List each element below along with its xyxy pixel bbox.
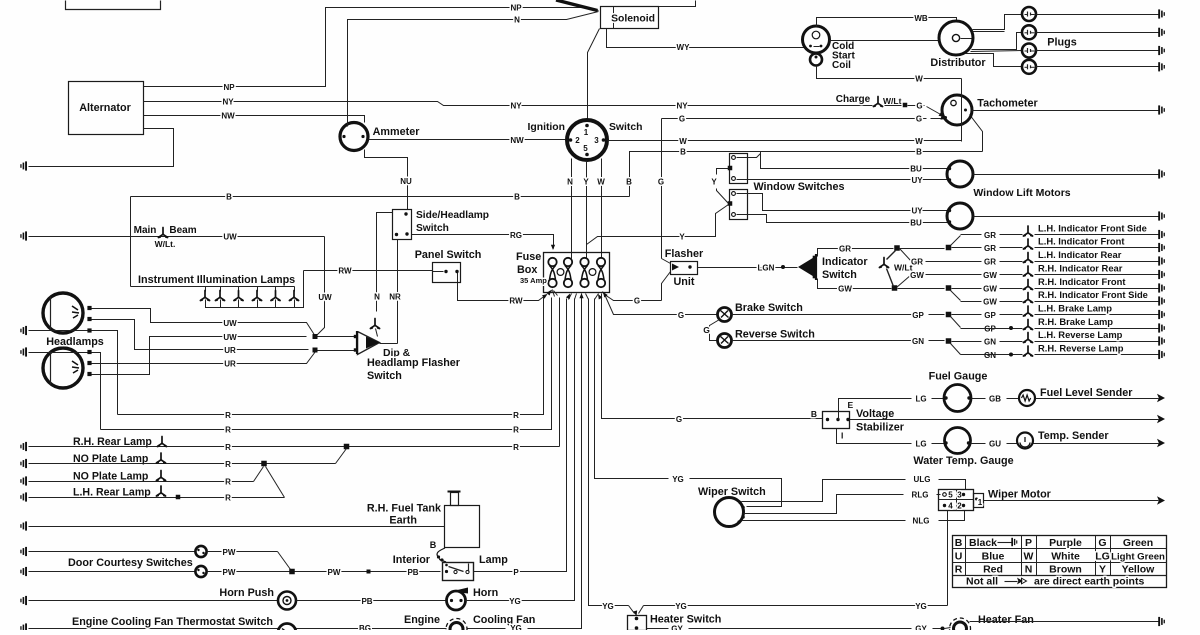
svg-text:Instrument Illumination Lamps: Instrument Illumination Lamps: [138, 274, 295, 286]
wire G into tachometer: [927, 107, 943, 116]
svg-text:Fuel Level Sender: Fuel Level Sender: [1040, 387, 1133, 399]
wire coil to distributor LT: [830, 40, 941, 42]
svg-text:NY: NY: [510, 102, 522, 111]
heater fan earth wire: [970, 621, 1159, 623]
svg-text:R: R: [225, 494, 231, 503]
svg-text:3: 3: [594, 136, 599, 145]
wire GB to fuel level sender: [972, 398, 986, 400]
wire N solenoid to ammeter: [348, 12, 599, 123]
svg-text:RG: RG: [510, 231, 522, 240]
svg-text:Red: Red: [983, 564, 1003, 576]
svg-text:Y: Y: [583, 178, 589, 187]
wire G fuse box to brake switch: [606, 297, 718, 315]
wire WB coil to distributor: [817, 18, 957, 27]
wire Y feed from fuse box: [587, 205, 729, 245]
svg-text:L.H. Indicator Rear: L.H. Indicator Rear: [1038, 249, 1122, 260]
battery thick feed wire: [556, 0, 598, 11]
svg-text:2: 2: [575, 136, 580, 145]
headlamp lower: [43, 348, 83, 388]
svg-text:Fuse: Fuse: [516, 251, 541, 263]
door courtesy switch 1: [29, 551, 196, 553]
svg-text:Horn: Horn: [473, 587, 498, 599]
wire G vertical to flasher: [661, 119, 663, 259]
wire BU to window motor 2: [737, 215, 949, 223]
svg-text:PW: PW: [328, 568, 341, 577]
svg-text:GW: GW: [983, 298, 997, 307]
wire RW panel switch to fuse box: [458, 273, 547, 301]
indicator switch: [798, 256, 816, 278]
wire UW headlamp1 to dip switch: [92, 309, 316, 337]
svg-text:Beam: Beam: [169, 225, 196, 236]
svg-text:Temp. Sender: Temp. Sender: [1038, 430, 1109, 442]
svg-text:B: B: [226, 193, 232, 202]
wire N side switch to main beam lamp: [377, 213, 393, 312]
door courtesy switch 2: [29, 571, 196, 573]
svg-text:Yellow: Yellow: [1122, 564, 1156, 576]
svg-text:P: P: [1025, 537, 1032, 549]
water temp gauge: [945, 428, 971, 454]
wire G fuse box to voltage stabilizer: [602, 297, 823, 419]
solenoid U2: [601, 7, 659, 29]
wire P interior lamp to fuse box: [474, 299, 567, 572]
wire RLG wiper switch to motor: [744, 495, 904, 514]
wire G fuse box to flasher: [605, 295, 662, 301]
svg-text:Engine: Engine: [404, 614, 440, 626]
plug earth wire: [1036, 32, 1159, 34]
svg-text:LG: LG: [915, 395, 926, 404]
wire W ignition to tach area: [608, 140, 962, 142]
svg-text:4: 4: [948, 502, 953, 511]
svg-text:Brake Switch: Brake Switch: [735, 302, 803, 314]
svg-text:Box: Box: [517, 264, 537, 276]
svg-text:Water Temp. Gauge: Water Temp. Gauge: [913, 455, 1013, 467]
svg-text:B: B: [955, 537, 963, 549]
svg-text:Coil: Coil: [832, 60, 851, 71]
svg-text:Voltage: Voltage: [856, 408, 894, 420]
main beam indicator bulb: [370, 319, 379, 329]
svg-text:NLG: NLG: [913, 517, 930, 526]
wire PB horn push to horn: [297, 600, 447, 602]
wire NW ammeter to ignition switch: [369, 139, 568, 141]
wire UR headlamp1: [92, 320, 309, 350]
svg-text:Door Courtesy Switches: Door Courtesy Switches: [68, 557, 193, 569]
svg-text:YG: YG: [602, 602, 614, 611]
wire UY to window motor 2: [737, 194, 949, 211]
svg-text:Headlamp Flasher: Headlamp Flasher: [367, 357, 461, 369]
svg-text:Green: Green: [1123, 537, 1153, 549]
svg-text:BU: BU: [910, 165, 922, 174]
svg-text:Indicator: Indicator: [822, 256, 868, 268]
svg-text:Wiper Switch: Wiper Switch: [698, 486, 766, 498]
svg-text:Stabilizer: Stabilizer: [856, 422, 905, 434]
svg-text:UW: UW: [223, 319, 237, 328]
svg-text:W: W: [915, 75, 923, 84]
engine cooling fan thermostat switch: [29, 628, 278, 630]
plug earth wire: [1036, 14, 1159, 16]
svg-text:Y: Y: [711, 178, 717, 187]
voltage stabilizer: [823, 412, 850, 429]
alternator earth wire: [29, 129, 174, 167]
spark plugs: [1022, 7, 1036, 21]
svg-text:W/Lt: W/Lt: [883, 96, 902, 106]
svg-text:PB: PB: [407, 568, 418, 577]
row interconnections GR: [900, 249, 912, 262]
window lift motor 2: [947, 203, 973, 229]
wire PW courtesy to junction: [208, 551, 278, 553]
wire RG side/headlamp switch to fuse box: [412, 235, 554, 249]
svg-text:Window Lift Motors: Window Lift Motors: [973, 187, 1070, 199]
wire NLG wiper switch to motor: [743, 520, 906, 522]
battery box (cut at top): [66, 1, 161, 10]
svg-text:R: R: [225, 460, 231, 469]
svg-text:R.H. Indicator Front: R.H. Indicator Front: [1038, 276, 1126, 287]
svg-text:GR: GR: [839, 245, 851, 254]
svg-text:NW: NW: [510, 136, 524, 145]
svg-text:L.H. Indicator Front Side: L.H. Indicator Front Side: [1038, 223, 1147, 234]
svg-text:Switch: Switch: [416, 223, 449, 234]
svg-text:UY: UY: [911, 207, 923, 216]
svg-text:B: B: [680, 148, 686, 157]
wire G to tachometer: [931, 118, 945, 120]
wire GY heater switch to heater fan: [647, 628, 669, 630]
svg-text:Purple: Purple: [1049, 537, 1082, 549]
svg-text:Unit: Unit: [674, 276, 695, 288]
legend table: [953, 536, 1167, 588]
svg-text:Horn Push: Horn Push: [219, 587, 274, 599]
svg-text:GR: GR: [984, 231, 996, 240]
window switch 1: [730, 154, 748, 184]
svg-text:2: 2: [957, 502, 962, 511]
svg-text:LG: LG: [915, 440, 926, 449]
wire UY to window motor 1: [737, 179, 949, 181]
fuse box: [544, 253, 610, 293]
fuel gauge: [944, 385, 971, 412]
svg-text:NO Plate Lamp: NO Plate Lamp: [73, 471, 149, 483]
svg-text:Main: Main: [134, 225, 157, 236]
svg-text:WB: WB: [914, 14, 928, 23]
flasher unit: [671, 262, 698, 275]
svg-text:LG: LG: [1095, 551, 1110, 563]
wire ULG wiper switch to motor: [742, 480, 906, 502]
svg-text:BG: BG: [359, 624, 371, 630]
svg-text:GW: GW: [983, 271, 997, 280]
svg-text:R: R: [225, 443, 231, 452]
svg-text:Heater Switch: Heater Switch: [650, 614, 721, 626]
plug leads: [973, 15, 1022, 30]
svg-text:B: B: [811, 409, 817, 419]
wiper motor: [939, 490, 974, 511]
headlamp terminals: [87, 306, 91, 310]
svg-text:RW: RW: [509, 297, 523, 306]
svg-text:GN: GN: [984, 338, 996, 347]
svg-text:W: W: [679, 137, 687, 146]
wire BG thermostat to fan: [297, 628, 447, 630]
flasher input diagonals: [662, 259, 671, 264]
svg-text:Alternator: Alternator: [79, 102, 131, 114]
svg-text:R: R: [955, 564, 963, 576]
svg-text:PW: PW: [223, 568, 236, 577]
svg-text:Panel Switch: Panel Switch: [415, 249, 482, 261]
svg-text:Tachometer: Tachometer: [977, 98, 1038, 110]
window switch 2: [730, 190, 748, 220]
svg-text:R.H. Indicator Rear: R.H. Indicator Rear: [1038, 263, 1123, 274]
heater switch: [628, 616, 647, 631]
svg-text:LGN: LGN: [758, 264, 775, 273]
svg-text:BU: BU: [910, 219, 922, 228]
svg-text:GW: GW: [983, 285, 997, 294]
svg-text:Plugs: Plugs: [1047, 37, 1076, 49]
distributor: [939, 21, 973, 55]
wire Y ignition to fuse box: [586, 161, 588, 259]
svg-text:Distributor: Distributor: [930, 57, 986, 69]
svg-text:NP: NP: [223, 83, 235, 92]
svg-text:UR: UR: [224, 346, 236, 355]
svg-text:NW: NW: [221, 112, 235, 121]
svg-text:U: U: [955, 551, 963, 563]
wire YG fuse box to wiper switch: [595, 299, 669, 479]
svg-text:W: W: [597, 178, 605, 187]
wire UW headlamp2: [92, 337, 307, 375]
svg-text:G: G: [658, 178, 664, 187]
stabilizer output wire: [850, 419, 1151, 421]
svg-text:G: G: [679, 115, 685, 124]
svg-text:NP: NP: [510, 4, 522, 13]
wire GP brake lamps: [732, 314, 912, 316]
ignition switch: [567, 120, 607, 160]
svg-text:UY: UY: [911, 176, 923, 185]
svg-text:Not all: Not all: [966, 576, 998, 588]
side/headlamp switch: [393, 210, 412, 240]
svg-text:Y: Y: [679, 233, 685, 242]
wire NR side switch to dip switch: [397, 240, 399, 344]
wire W coil to tachometer: [817, 66, 962, 79]
svg-text:GB: GB: [989, 395, 1001, 404]
svg-text:Black: Black: [969, 537, 997, 549]
svg-text:N: N: [567, 178, 573, 187]
svg-text:N: N: [374, 293, 380, 302]
wire R headlamp1 to fuse box: [92, 331, 118, 415]
svg-text:E: E: [848, 400, 854, 410]
svg-text:Fuel Gauge: Fuel Gauge: [929, 371, 988, 383]
heater fan: [950, 618, 971, 635]
wire LGN flasher to indicator switch: [698, 267, 798, 269]
svg-text:L.H. Brake Lamp: L.H. Brake Lamp: [1038, 303, 1112, 314]
svg-text:Side/Headlamp: Side/Headlamp: [416, 210, 489, 221]
svg-text:R: R: [225, 478, 231, 487]
svg-text:W: W: [915, 137, 923, 146]
wire N ignition to fuse box: [571, 159, 573, 259]
wire YG wiper motor pin4 down: [947, 511, 949, 606]
wire Y link between window switches: [717, 169, 729, 175]
panel switch: [433, 263, 461, 283]
temp sender: [1017, 433, 1033, 449]
wire GN reverse lamps: [732, 340, 912, 342]
svg-text:Earth: Earth: [389, 515, 417, 527]
svg-text:Switch: Switch: [822, 269, 857, 281]
svg-text:RLG: RLG: [912, 491, 929, 500]
svg-text:Light Green: Light Green: [1111, 552, 1165, 563]
svg-text:NU: NU: [400, 177, 412, 186]
svg-text:YG: YG: [675, 602, 687, 611]
fuel level sender: [1019, 390, 1035, 406]
wire NR dip output: [380, 343, 398, 345]
svg-text:N: N: [514, 16, 520, 25]
W/Lt indicator warning lamp: [894, 245, 900, 251]
wire R headlamp2: [92, 353, 101, 430]
horn push: [29, 600, 278, 602]
ammeter: [340, 123, 368, 151]
fuel tank earth wire: [29, 526, 445, 528]
svg-text:ULG: ULG: [914, 475, 931, 484]
svg-text:Heater Fan: Heater Fan: [978, 614, 1034, 626]
svg-text:B: B: [916, 148, 922, 157]
svg-text:GR: GR: [984, 244, 996, 253]
horn: [447, 591, 466, 610]
svg-text:G: G: [676, 415, 682, 424]
headlamp upper: [43, 293, 83, 333]
svg-text:Charge: Charge: [836, 94, 871, 105]
UR junction: [313, 348, 318, 353]
wire solenoid right to top edge: [659, 1, 696, 7]
svg-text:Lamp: Lamp: [479, 554, 508, 566]
row interconnections GW: [897, 275, 912, 288]
svg-text:are direct earth points: are direct earth points: [1034, 576, 1144, 588]
svg-text:G: G: [916, 115, 922, 124]
svg-text:Blue: Blue: [982, 551, 1005, 563]
wire B tank to interior lamp: [437, 548, 446, 562]
svg-text:Wiper Motor: Wiper Motor: [988, 489, 1052, 501]
wire G brake to reverse switch: [710, 320, 720, 341]
svg-text:GN: GN: [984, 351, 996, 360]
svg-text:N: N: [1025, 564, 1033, 576]
wire YG fan to fuse box: [468, 628, 506, 630]
svg-text:GP: GP: [984, 311, 996, 320]
wire ignition terminal 1 to solenoid: [588, 29, 600, 122]
svg-text:3: 3: [957, 491, 962, 500]
svg-text:UW: UW: [318, 293, 332, 302]
wire window switch 1 to B bus: [737, 154, 761, 158]
svg-text:R.H. Fuel Tank: R.H. Fuel Tank: [367, 503, 442, 515]
svg-text:YG: YG: [509, 597, 521, 606]
svg-text:R.H. Reverse Lamp: R.H. Reverse Lamp: [1038, 343, 1124, 354]
svg-text:Ammeter: Ammeter: [373, 126, 421, 138]
wire W ignition to fuse box: [601, 159, 603, 259]
wire WY solenoid to cold start coil: [607, 29, 804, 48]
svg-text:R.H. Brake Lamp: R.H. Brake Lamp: [1038, 316, 1113, 327]
wiper motor output wire: [984, 500, 1151, 502]
svg-text:YG: YG: [672, 475, 684, 484]
wire PW to interior lamp: [208, 571, 441, 573]
svg-text:GW: GW: [838, 285, 852, 294]
svg-text:Ignition: Ignition: [527, 122, 565, 133]
svg-text:Window Switches: Window Switches: [753, 181, 844, 193]
svg-text:B: B: [430, 540, 437, 550]
wire YG horn to fuse box: [466, 299, 575, 601]
svg-text:GP: GP: [912, 311, 924, 320]
svg-text:GY: GY: [671, 625, 683, 631]
window lift motor 1: [947, 161, 973, 187]
svg-text:R: R: [513, 443, 519, 452]
svg-text:G: G: [678, 311, 684, 320]
wire NP battery to solenoid: [144, 8, 599, 87]
wire LG to water temp gauge: [837, 429, 912, 444]
svg-text:NY: NY: [222, 98, 234, 107]
dip and headlamp flasher switch: [358, 332, 380, 355]
svg-text:Solenoid: Solenoid: [611, 14, 655, 25]
wire NU ammeter to side/headlamp switch: [365, 150, 408, 210]
svg-text:PB: PB: [361, 597, 372, 606]
wire R row1 to fuse box: [118, 298, 544, 415]
svg-text:Switch: Switch: [367, 370, 402, 382]
wire UR headlamp2: [92, 352, 316, 364]
svg-text:1: 1: [584, 128, 589, 137]
wire GU to temp sender: [971, 443, 986, 445]
svg-text:RW: RW: [338, 267, 352, 276]
svg-text:G: G: [634, 297, 640, 306]
svg-text:L.H. Reverse Lamp: L.H. Reverse Lamp: [1038, 329, 1123, 340]
interior lamp: [443, 563, 474, 581]
reverse switch: [718, 334, 732, 348]
wire GR indicator switch: [818, 249, 894, 257]
svg-text:R: R: [225, 411, 231, 420]
svg-text:Flasher: Flasher: [665, 248, 704, 260]
earth point: [20, 161, 27, 170]
tachometer: [942, 95, 972, 125]
wire YG fuse box to heater switch and wiper motor: [589, 299, 626, 606]
brake switch: [718, 308, 732, 322]
svg-text:GY: GY: [915, 625, 927, 631]
window motor earth wires: [974, 174, 1159, 176]
svg-text:G: G: [703, 325, 710, 335]
wire GW indicator switch: [818, 279, 892, 289]
wire NY alternator charge wire: [144, 102, 873, 106]
svg-text:L.H. Rear Lamp: L.H. Rear Lamp: [73, 487, 151, 499]
svg-text:GW: GW: [910, 271, 924, 280]
svg-text:W/Lt.: W/Lt.: [155, 239, 176, 249]
svg-text:Engine Cooling Fan Thermostat: Engine Cooling Fan Thermostat Switch: [72, 616, 273, 628]
svg-text:5: 5: [583, 144, 588, 153]
alternator: [69, 82, 144, 135]
R.H. fuel tank: [445, 506, 480, 548]
svg-text:Brown: Brown: [1049, 564, 1082, 576]
headlamp earth wires: [29, 330, 88, 332]
svg-text:GR: GR: [984, 258, 996, 267]
wire NW alternator to ammeter: [144, 116, 365, 123]
svg-text:UW: UW: [223, 233, 237, 242]
svg-text:R: R: [513, 426, 519, 435]
cold start coil: [803, 26, 830, 53]
svg-text:1: 1: [978, 498, 983, 507]
svg-text:R.H. Indicator Front Side: R.H. Indicator Front Side: [1038, 289, 1148, 300]
svg-text:Y: Y: [1099, 564, 1106, 576]
charge warning lamp W/Lt: [873, 97, 882, 107]
fuse box bottom fan-out arrows: [549, 290, 553, 295]
svg-text:NY: NY: [676, 102, 688, 111]
wire R row2 to fuse box: [101, 298, 552, 430]
tachometer earth wire: [972, 110, 1159, 112]
svg-text:NR: NR: [389, 293, 401, 302]
svg-text:G: G: [1098, 537, 1106, 549]
svg-text:YG: YG: [510, 624, 522, 630]
svg-text:35 Amp: 35 Amp: [520, 276, 547, 285]
main beam warning lamp row UW: [29, 236, 325, 238]
svg-text:White: White: [1051, 551, 1080, 563]
svg-text:Interior: Interior: [393, 554, 431, 566]
svg-text:Reverse Switch: Reverse Switch: [735, 329, 815, 341]
svg-text:5: 5: [948, 491, 953, 500]
svg-text:Cooling Fan: Cooling Fan: [473, 614, 535, 626]
svg-text:P: P: [513, 568, 519, 577]
